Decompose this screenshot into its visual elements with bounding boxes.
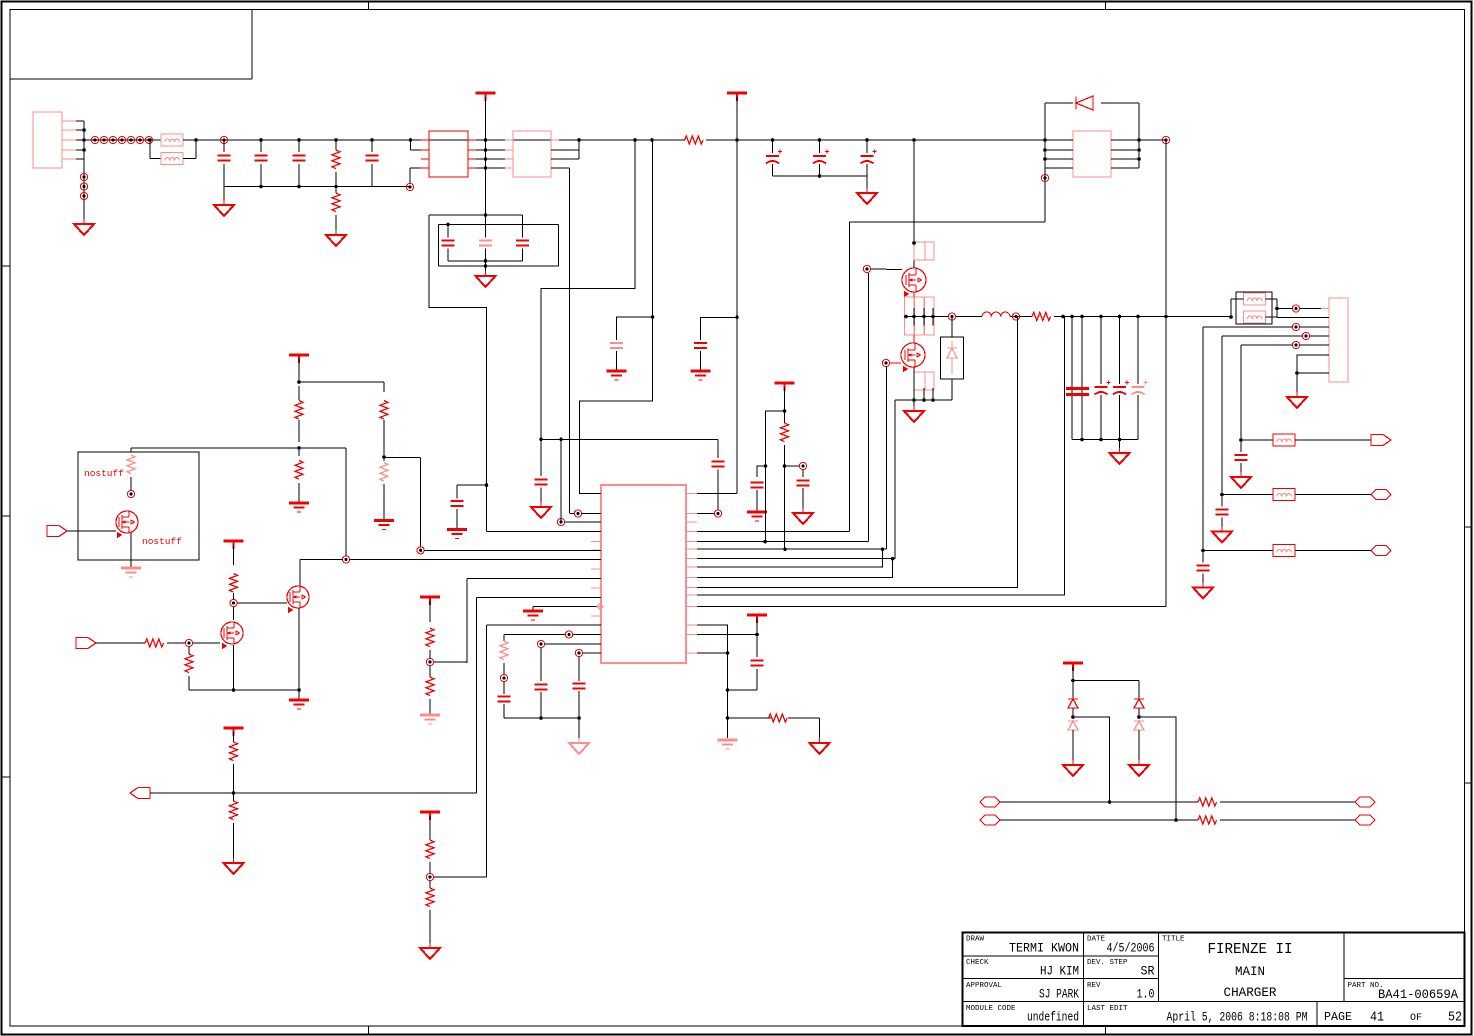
svg-text:LAST EDIT: LAST EDIT xyxy=(1087,1005,1128,1013)
svg-text:FIRENZE II: FIRENZE II xyxy=(1208,942,1293,958)
svg-text:MAIN: MAIN xyxy=(1235,964,1265,979)
svg-text:DRAW: DRAW xyxy=(966,936,985,944)
svg-text:DATE: DATE xyxy=(1087,936,1106,944)
svg-text:undefined: undefined xyxy=(1027,1011,1079,1025)
svg-text:TITLE: TITLE xyxy=(1162,936,1185,944)
svg-text:APPROVAL: APPROVAL xyxy=(966,982,1003,990)
svg-text:PAGE: PAGE xyxy=(1324,1010,1352,1024)
svg-text:CHECK: CHECK xyxy=(966,959,989,967)
svg-text:April 5, 2006 8:18:08 PM: April 5, 2006 8:18:08 PM xyxy=(1167,1011,1308,1025)
svg-text:OF: OF xyxy=(1410,1012,1422,1024)
svg-text:52: 52 xyxy=(1448,1010,1462,1026)
svg-text:MODULE CODE: MODULE CODE xyxy=(966,1005,1016,1013)
svg-text:REV: REV xyxy=(1087,982,1101,990)
svg-text:DEV. STEP: DEV. STEP xyxy=(1087,959,1128,967)
svg-text:BA41-00659A: BA41-00659A xyxy=(1378,988,1458,1002)
svg-text:CHARGER: CHARGER xyxy=(1224,985,1277,1000)
svg-text:4/5/2006: 4/5/2006 xyxy=(1107,942,1155,956)
svg-text:HJ KIM: HJ KIM xyxy=(1040,965,1079,979)
svg-text:1.0: 1.0 xyxy=(1137,988,1155,1002)
svg-text:SJ PARK: SJ PARK xyxy=(1039,988,1079,1002)
svg-text:TERMI KWON: TERMI KWON xyxy=(1009,942,1079,956)
svg-text:SR: SR xyxy=(1141,965,1155,979)
svg-text:nostuff: nostuff xyxy=(142,536,182,547)
svg-text:41: 41 xyxy=(1370,1010,1384,1026)
svg-text:nostuff: nostuff xyxy=(84,468,124,479)
